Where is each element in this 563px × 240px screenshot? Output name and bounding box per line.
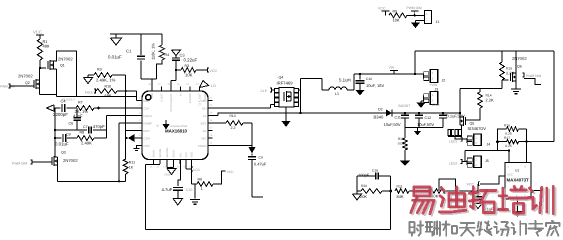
capacitor C9 0.01uF: [55, 133, 77, 147]
power flag VCC (top left): [33, 30, 44, 40]
svg-text:R3: R3: [185, 64, 190, 68]
svg-text:J2: J2: [442, 79, 446, 83]
power flag VCC (top right): [378, 7, 390, 16]
wire R9 to vertical bus x125.7: [112, 74, 126, 76]
wire U1 ground: [513, 199, 523, 217]
op-amp U3 MAX16810 LED driver IC: [138, 83, 213, 169]
wire C7 row up to IC pin3: [106, 116, 142, 131]
wire U1 VCC pin: [480, 176, 505, 184]
svg-text:10uF, 16V: 10uF, 16V: [366, 83, 385, 88]
svg-text:VCC: VCC: [193, 168, 201, 172]
ground below C10: [173, 199, 183, 206]
wire IC AGND pins to bottom bus: [146, 164, 160, 229]
resistor R17 0.25: [498, 136, 555, 148]
net label PWM DIM (bottom left): [12, 160, 32, 166]
svg-text:C12: C12: [425, 116, 432, 120]
svg-text:2.2: 2.2: [231, 126, 236, 130]
resistor R8 2.49K: [77, 131, 94, 146]
resistor R9 2.49K 1%: [94, 68, 116, 83]
jumper loop over R18: [439, 179, 456, 191]
svg-text:J5: J5: [485, 159, 489, 163]
svg-text:2.2K: 2.2K: [486, 98, 494, 103]
ground below R19: [400, 161, 410, 167]
svg-text:VCC: VCC: [378, 7, 386, 11]
wire LED rail down right edge: [553, 51, 555, 142]
svg-text:LED2: LED2: [449, 162, 458, 166]
svg-text:SGND: SGND: [204, 93, 207, 101]
bottom ground bus: [146, 191, 391, 230]
svg-text:C18: C18: [366, 77, 372, 81]
wire R18 row to C15 column: [456, 190, 479, 192]
transistor Q4 IRF7469: [275, 76, 299, 108]
svg-text:R8: R8: [80, 131, 85, 135]
wire VCC pin stub: [186, 164, 201, 172]
wire VIN junction up to LED rail: [414, 51, 554, 75]
transistor Q6 2N7002: [511, 51, 528, 82]
svg-text:CLK_OUT: CLK_OUT: [199, 93, 202, 105]
capacitor C10 4.7uF: [162, 164, 193, 199]
svg-text:C10: C10: [186, 188, 193, 192]
svg-text:1: 1: [201, 186, 203, 191]
resistor R18 240K: [429, 189, 456, 199]
svg-text:VCC: VCC: [507, 173, 513, 177]
svg-text:10K: 10K: [393, 17, 400, 22]
svg-text:VCC: VCC: [227, 170, 235, 174]
svg-text:MAX16810: MAX16810: [165, 128, 188, 133]
svg-text:0.25: 0.25: [505, 144, 512, 148]
wire DPP pin to column x119: [119, 123, 142, 181]
wire C3 bottom into IC top pin: [171, 69, 177, 87]
svg-text:B340: B340: [374, 115, 384, 120]
wire U1 output stub: [531, 190, 542, 192]
svg-text:2N7002: 2N7002: [58, 57, 73, 62]
svg-text:V_OUT: V_OUT: [161, 93, 164, 102]
svg-text:VDD: VDD: [191, 152, 194, 158]
resistor R15 4.3K: [500, 51, 515, 89]
svg-text:L1: L1: [335, 92, 339, 96]
svg-text:2N7002: 2N7002: [63, 158, 78, 163]
wire L1 to VIN rail: [354, 74, 415, 90]
resistor R4 110K 1%: [151, 34, 170, 60]
ground bars below R6 node: [190, 184, 200, 204]
svg-text:R11: R11: [129, 161, 135, 165]
svg-text:C7: C7: [83, 125, 88, 129]
wire R7 to IC pin CLP with junction: [94, 107, 142, 110]
watermark red text row: [411, 186, 555, 215]
ground under IC pins 3-4: [164, 164, 176, 177]
sense resistor node bars: [496, 129, 528, 151]
svg-text:4.7uF: 4.7uF: [162, 187, 173, 192]
wire R15 to Q6 gate: [502, 79, 509, 81]
wire pin5 to bus and CSN arrow: [125, 131, 142, 143]
capacitor C13 0.1uF 50V: [439, 112, 465, 128]
svg-text:CSN: CSN: [144, 136, 150, 140]
wire Q2 source row to Q1 source: [40, 88, 57, 95]
svg-text:R9: R9: [97, 68, 102, 72]
resistor R6 1: [192, 164, 235, 191]
svg-text:PWM DIM: PWM DIM: [12, 162, 27, 166]
svg-text:AGND: AGND: [153, 150, 156, 158]
svg-text:R7: R7: [78, 101, 83, 105]
off-page arrow LO at IC top right: [200, 81, 216, 89]
connector J2 +VIN: [415, 70, 445, 88]
resistor R20 20K: [357, 184, 392, 199]
svg-text:PGND: PGND: [198, 144, 208, 148]
net label VCC (U1): [467, 182, 481, 187]
wire U1 RS- input up: [526, 129, 528, 163]
wire boost cap bottom bus: [405, 127, 443, 129]
svg-text:Q1: Q1: [60, 64, 65, 68]
wire Q2 drain to node A: [39, 67, 41, 80]
wire Q3 source to R11 bottom row: [58, 165, 126, 182]
transistor Q1 2N7002: [48, 57, 73, 71]
vertical bus x125.7 down to R11: [125, 75, 127, 159]
svg-text:R10: R10: [105, 85, 112, 89]
svg-text:C11: C11: [395, 115, 401, 119]
svg-text:0.1uF,50V: 0.1uF,50V: [447, 114, 466, 119]
resistor R11 1K: [123, 159, 135, 181]
svg-text:FAULT: FAULT: [85, 91, 95, 95]
svg-text:LED1: LED1: [449, 140, 458, 144]
svg-text:1K: 1K: [129, 166, 134, 170]
inductor L1 5.1uH: [329, 78, 354, 97]
capacitor C18 10uF 16V: [356, 73, 385, 96]
mini ground at CSP pin: [134, 146, 143, 151]
wire Q4 drain bus to L1 and LX: [298, 79, 329, 114]
connector J4: [467, 134, 490, 147]
svg-text:0.01uF: 0.01uF: [108, 55, 122, 60]
svg-text:SI3467DV: SI3467DV: [468, 126, 487, 131]
svg-text:DL: DL: [203, 129, 207, 133]
svg-text:VCC: VCC: [185, 152, 188, 158]
net label CLP at Q4: [261, 88, 275, 93]
svg-text:PWM DIM: PWM DIM: [526, 74, 541, 78]
resistor R21 84K: [395, 185, 430, 200]
svg-text:J1: J1: [436, 20, 440, 24]
svg-text:R6: R6: [198, 178, 203, 182]
svg-text:DH: DH: [202, 106, 206, 110]
svg-text:10uF,50V: 10uF,50V: [417, 122, 434, 127]
ground (top, left of C1): [111, 34, 122, 45]
net label LED2 and wire to J5: [449, 151, 509, 166]
vertical bus x55 (C4/C7/C9 left): [54, 108, 56, 157]
net label BOOST: [399, 104, 411, 108]
capacitor C16 100pF: [357, 169, 391, 192]
svg-text:VIN: VIN: [179, 153, 182, 157]
ground at J1 pin2: [411, 21, 425, 29]
svg-text:1%: 1%: [404, 145, 409, 149]
resistor R7 2K 1%: [75, 101, 95, 115]
svg-text:499: 499: [43, 44, 50, 49]
svg-text:FAULT: FAULT: [144, 114, 153, 118]
svg-text:U1: U1: [515, 169, 519, 173]
node A wire to Q1 gate: [40, 67, 46, 69]
wire top bus y34: [110, 33, 162, 35]
net label LED1 and wire to J4: [449, 137, 467, 144]
svg-text:R19: R19: [398, 137, 404, 141]
ground on cap bus: [414, 128, 421, 136]
svg-text:470pF: 470pF: [93, 124, 105, 129]
svg-text:10K: 10K: [185, 73, 193, 78]
ground below Q4: [282, 107, 291, 127]
svg-text:2.49K: 2.49K: [81, 140, 92, 145]
svg-text:R20: R20: [361, 184, 367, 188]
svg-text:0.47uF: 0.47uF: [254, 161, 267, 166]
svg-text:LO: LO: [211, 84, 216, 88]
svg-text:0.25: 0.25: [505, 131, 512, 135]
wire R10 right to IC pin1 bend: [117, 90, 142, 101]
svg-text:D2: D2: [378, 108, 383, 112]
watermark gray text row: [409, 221, 559, 236]
svg-text:BOOST: BOOST: [399, 104, 411, 108]
svg-text:R10: R10: [230, 114, 236, 118]
svg-text:IRF7469: IRF7469: [277, 81, 294, 86]
capacitor C6 47pF: [69, 108, 83, 130]
svg-text:Q3: Q3: [61, 151, 66, 155]
svg-text:PGOOD: PGOOD: [189, 93, 192, 103]
resistor R5 10K: [389, 10, 424, 23]
net label PWM DIM (top right): [407, 6, 422, 17]
wire R1 bottom to node A: [39, 60, 41, 68]
svg-text:SENSE+: SENSE+: [166, 147, 169, 158]
ground left of R20: [353, 191, 362, 200]
capacitor C3 0.22uF: [172, 53, 197, 71]
svg-text:LX: LX: [203, 114, 207, 118]
resistor R12 2.2 (BST): [213, 114, 253, 130]
svg-text:IN: IN: [180, 93, 183, 96]
wire C8 bottom stub: [252, 196, 263, 198]
svg-text:C6: C6: [69, 122, 74, 126]
capacitor C12 10uF 50V: [415, 112, 434, 128]
svg-text:SYNC/CLKOUT: SYNC/CLKOUT: [170, 93, 173, 112]
svg-text:NIC: NIC: [201, 136, 207, 140]
svg-text:2N7002: 2N7002: [512, 56, 527, 61]
wire Q1 source down: [54, 69, 57, 97]
resistor R19 0.007: [398, 128, 409, 162]
wire boost to Q5 column: [459, 89, 502, 119]
svg-text:VIN: VIN: [389, 66, 395, 70]
svg-text:110K, 1%: 110K, 1%: [151, 43, 156, 60]
svg-text:PWM DIM: PWM DIM: [407, 6, 422, 10]
net label PWM DIM (right): [523, 73, 542, 85]
svg-text:VCC: VCC: [33, 30, 42, 35]
diode D2 B340: [374, 108, 461, 120]
connector J3 GND: [417, 88, 441, 109]
resistor R10 68K: [96, 85, 117, 98]
svg-text:J4: J4: [487, 143, 491, 147]
svg-text:10uF,50V: 10uF,50V: [384, 122, 401, 127]
svg-text:MAX4073T: MAX4073T: [507, 178, 530, 183]
svg-text:BST: BST: [201, 121, 207, 125]
svg-text:2N7002: 2N7002: [18, 74, 33, 79]
svg-text:0.22uF: 0.22uF: [184, 58, 198, 63]
svg-text:R4: R4: [165, 53, 170, 57]
ground above C3: [172, 50, 181, 56]
wire DH to Q4 gate: [213, 105, 275, 109]
svg-text:0.01uF: 0.01uF: [55, 142, 69, 147]
svg-text:100pF: 100pF: [358, 173, 370, 178]
svg-text:C8: C8: [259, 155, 263, 159]
net label FAULT: [85, 89, 96, 95]
power flag VIN: [389, 66, 399, 75]
svg-text:2.49K, 1%: 2.49K, 1%: [96, 78, 116, 83]
connector J1: [425, 11, 440, 25]
capacitor C11 10uF 50V: [384, 112, 410, 128]
net label PWM DIM (left): [0, 84, 15, 89]
resistor R1 499: [37, 39, 49, 60]
wire R8 row to column: [94, 130, 106, 138]
arrow above C8: [249, 147, 256, 155]
connector J5: [467, 156, 489, 168]
capacitor C4 2200pF: [47, 99, 77, 117]
wire PGND row to C8 column: [213, 145, 253, 147]
wire Q1 drain loop to x76 bus: [54, 51, 77, 97]
wire DIM row (SCLKOUT net): [57, 97, 137, 102]
transistor Q5 SI3467DV: [448, 116, 486, 137]
svg-text:Q6: Q6: [517, 65, 522, 69]
wire LX row: [213, 112, 386, 116]
capacitor C8 0.47uF: [248, 155, 267, 197]
svg-text:5.1uH: 5.1uH: [339, 78, 351, 83]
transistor Q2 2N7002: [18, 74, 40, 90]
ground left of R9: [84, 75, 95, 84]
svg-text:C1: C1: [126, 49, 132, 54]
capacitor C7 470pF row: [55, 124, 106, 134]
svg-text:CSP: CSP: [144, 144, 150, 148]
wire PWM DIM to Q2 gate: [10, 85, 34, 87]
svg-text:Q2: Q2: [25, 81, 30, 85]
svg-text:CLP: CLP: [261, 89, 268, 93]
svg-text:R21: R21: [397, 185, 403, 189]
capacitor C1 0.01uF: [108, 34, 145, 79]
svg-text:C9: C9: [66, 133, 71, 137]
transistor Q3 2N7002: [32, 151, 78, 167]
net label VCC (right of R3): [208, 68, 218, 73]
wire R4 bottom to IC pin: [141, 60, 162, 87]
svg-text:AGND: AGND: [173, 150, 176, 158]
svg-text:GND: GND: [432, 103, 440, 107]
resistor R3 10K: [176, 64, 208, 78]
svg-text:C4: C4: [61, 99, 67, 104]
capacitor C15 0.1uF 50V: [474, 184, 502, 212]
svg-text:Q4: Q4: [279, 76, 284, 80]
svg-text:+VIN: +VIN: [430, 83, 438, 87]
current sense amp U1 MAX4073T: [505, 163, 531, 200]
svg-text:SENSE: SENSE: [159, 148, 162, 157]
svg-text:VCC: VCC: [210, 69, 218, 73]
svg-text:84K: 84K: [397, 194, 404, 199]
resistor R14 2.2K: [466, 89, 494, 120]
wire U1 RS+ input up: [508, 150, 510, 163]
svg-text:68K: 68K: [105, 93, 112, 98]
wire BST down to C8: [251, 123, 253, 147]
resistor R16 0.25: [498, 123, 527, 135]
svg-text:C16: C16: [372, 169, 378, 173]
svg-text:RAMP: RAMP: [144, 121, 153, 125]
svg-text:VDD: VDD: [164, 173, 170, 177]
svg-text:CLP: CLP: [144, 106, 150, 110]
ground below Q6: [511, 81, 521, 94]
svg-text:DPP: DPP: [144, 129, 150, 133]
